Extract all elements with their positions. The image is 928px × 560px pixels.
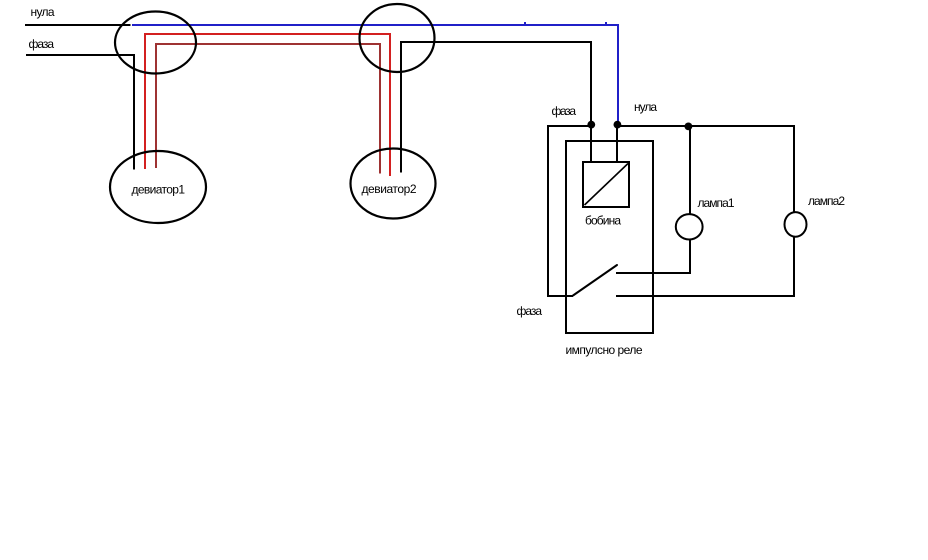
svg-text:девиатор1: девиатор1 — [132, 182, 186, 196]
wire phase drop to switch pivot (black, left side of relay) — [548, 126, 573, 296]
switch lever (relay contact arm) — [573, 265, 617, 296]
switch девиатор2 (ellipse) — [351, 149, 436, 219]
wire neutral bus (blue, across top then down to relay) — [132, 25, 618, 123]
wire лампа2 return to contact 2 (black) — [616, 236, 794, 296]
svg-text:лампа1: лампа1 — [698, 196, 735, 210]
node нула (junction dot) — [614, 121, 622, 129]
svg-text:бобина: бобина — [585, 214, 621, 228]
wire top bus left segment (фаза node to left drop) — [547, 125, 592, 127]
svg-text:девиатор2: девиатор2 — [362, 182, 417, 196]
relay box (импулсно реле) — [566, 141, 653, 333]
lamp лампа1 (circle) — [676, 214, 703, 239]
svg-text:импулсно реле: импулсно реле — [566, 343, 643, 357]
wire neutral feed (black, top-left horizontal) — [25, 24, 131, 26]
wire coil left lead — [590, 126, 592, 162]
svg-text:лампа2: лампа2 — [808, 194, 845, 208]
junction box 1 (ellipse) — [115, 12, 196, 74]
wire лампа2 feed from нула bus — [793, 126, 795, 213]
svg-text:нула: нула — [31, 5, 55, 19]
wire top bus right segment (нула node to лампа2 drop) — [617, 125, 795, 127]
wire лампа1 feed from нула bus — [689, 126, 691, 215]
lamp лампа2 (circle) — [785, 212, 807, 237]
blue wire tick 1 — [524, 22, 526, 24]
svg-text:фаза: фаза — [552, 104, 577, 118]
svg-text:нула: нула — [634, 100, 657, 114]
switch девиатор1 (ellipse) — [110, 151, 206, 223]
wire contact 1 to лампа1 (black) — [616, 240, 690, 273]
wire traveller 1 (bright red, девиатор1 to девиатор2) — [145, 34, 390, 176]
wire traveller 2 (dark red, девиатор1 to девиатор2) — [156, 44, 380, 174]
blue wire tick 2 — [605, 22, 607, 24]
svg-text:фаза: фаза — [517, 304, 543, 318]
wire coil right lead — [616, 126, 618, 162]
node лампа1 tap (junction dot) — [685, 123, 693, 131]
node фаза (junction dot) — [587, 121, 595, 129]
coil diagonal — [585, 164, 629, 206]
wire phase feed (black, horizontal then down to девиатор1) — [26, 55, 134, 170]
coil бобина (square) — [583, 162, 629, 207]
svg-text:фаза: фаза — [29, 37, 55, 51]
junction box 2 (ellipse) — [360, 4, 435, 72]
wire switched phase (black, девиатор2 up, right, down to relay фаза node) — [401, 42, 591, 173]
